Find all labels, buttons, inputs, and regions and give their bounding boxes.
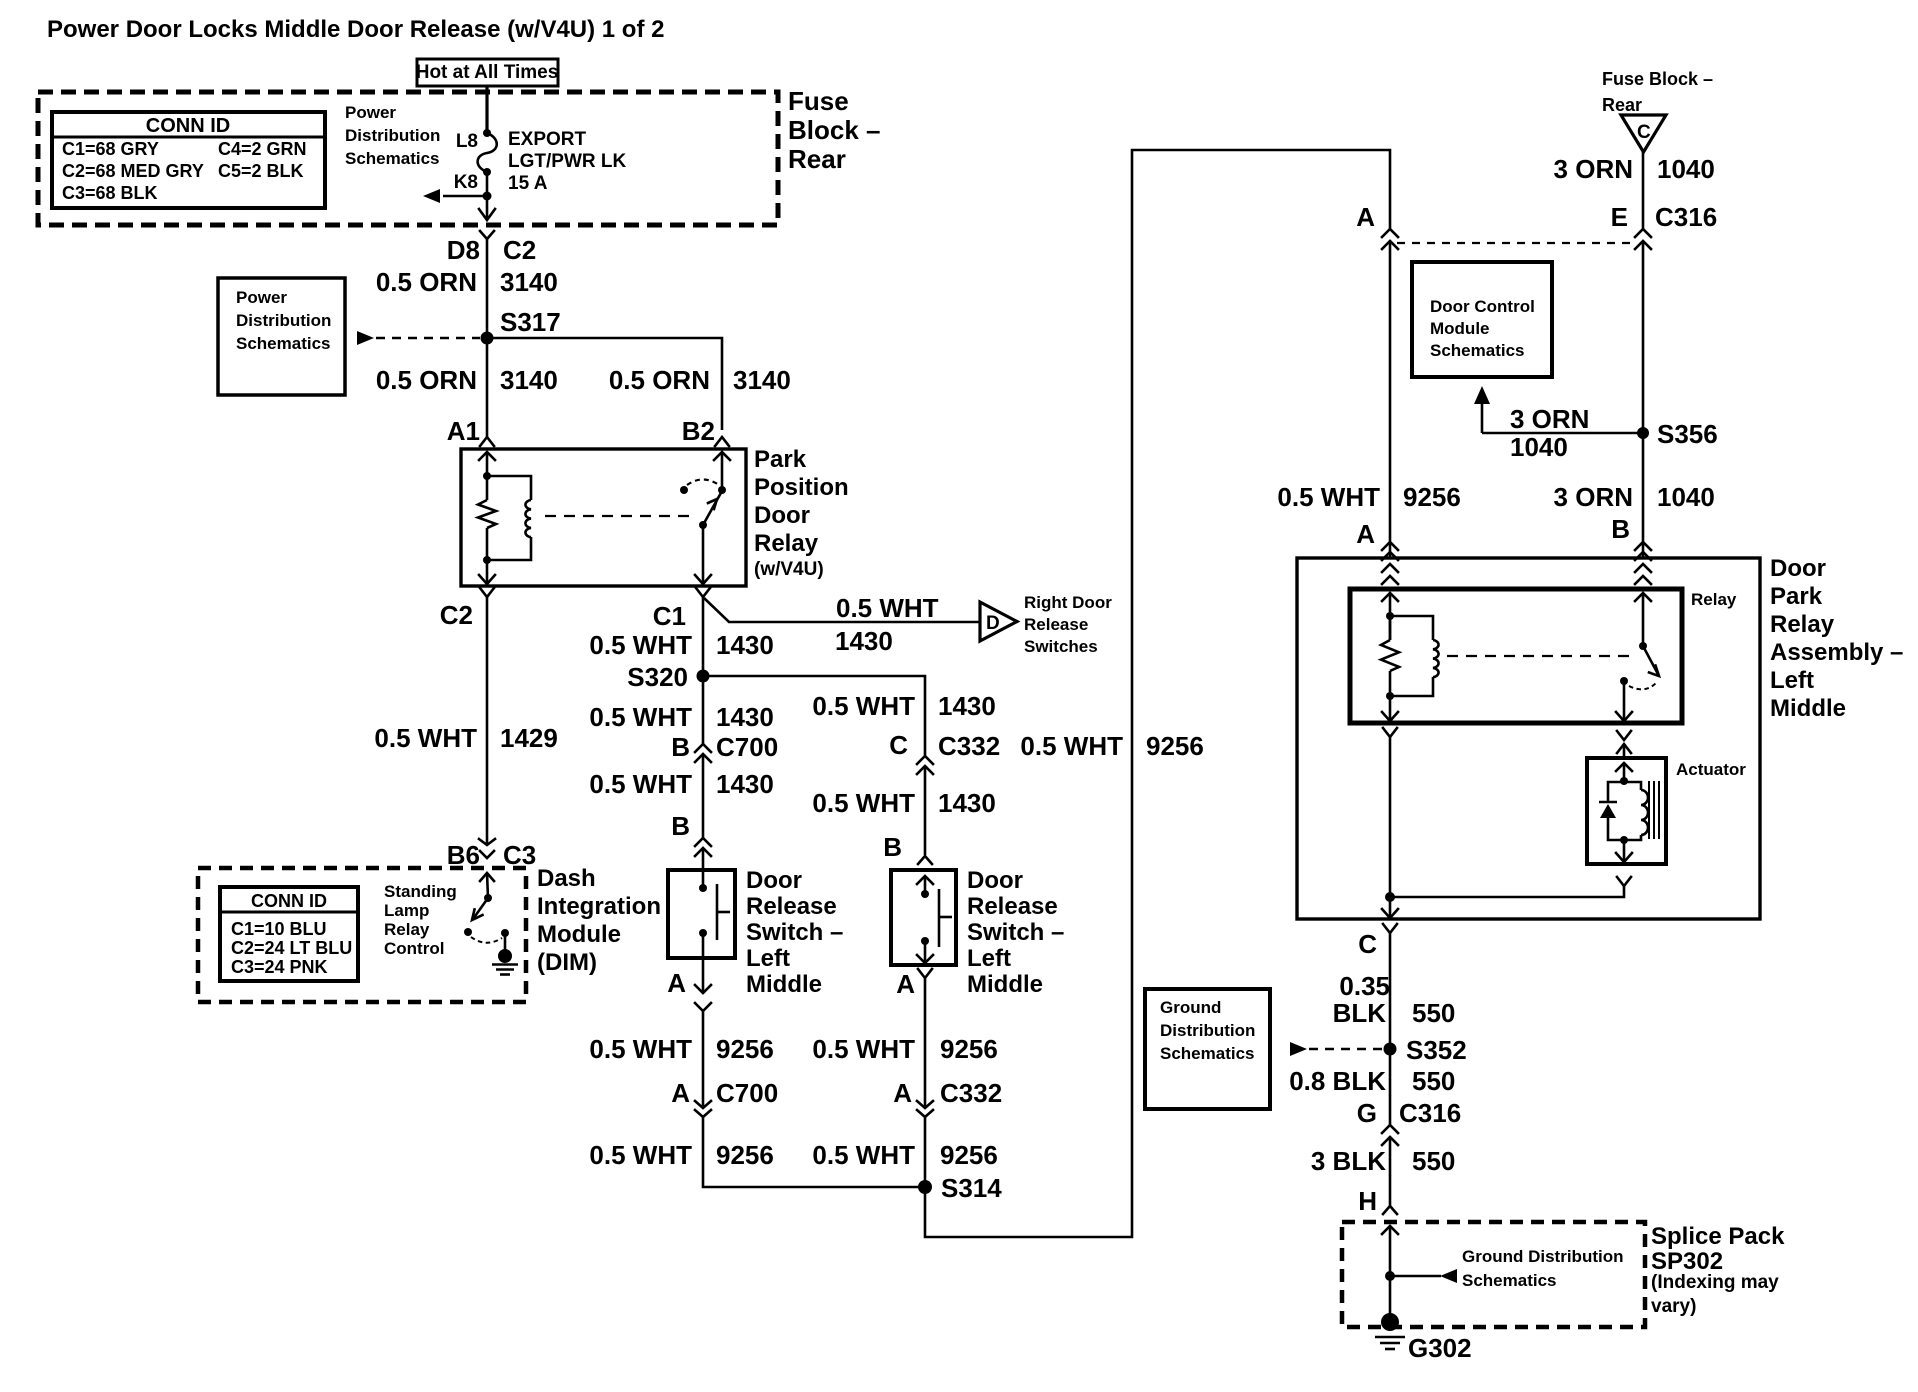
pin C of assembly xyxy=(1358,924,1397,959)
wire A into relay xyxy=(1382,564,1398,640)
svg-text:SP302: SP302 xyxy=(1651,1248,1723,1275)
svg-text:0.8 BLK: 0.8 BLK xyxy=(1289,1066,1386,1096)
svg-text:1429: 1429 xyxy=(500,723,558,753)
svg-text:Actuator: Actuator xyxy=(1676,760,1746,779)
wire 9256 right to S314 xyxy=(924,1117,927,1187)
relay coil inductor (parallel) xyxy=(487,476,531,560)
svg-text:0.5 WHT: 0.5 WHT xyxy=(374,723,477,753)
connector A / C332 xyxy=(893,1078,1002,1117)
svg-text:Schematics: Schematics xyxy=(236,334,331,353)
actuator solenoid coil xyxy=(1620,782,1648,844)
fuse block rear dashed box xyxy=(38,92,778,225)
SECTION: door release switches xyxy=(667,867,1064,1106)
svg-text:S317: S317 xyxy=(500,307,561,337)
wire from hot at all times into fuse xyxy=(485,85,488,133)
svg-text:(w/V4U): (w/V4U) xyxy=(754,559,824,580)
connector pins D8 / C2 at fuse block exit xyxy=(447,231,537,265)
relay coil output arrow to C2 xyxy=(479,560,495,584)
pin B left switch xyxy=(671,811,711,869)
splice S317 xyxy=(481,307,561,345)
connector B / C700 xyxy=(671,732,778,762)
relay K2 box xyxy=(1350,589,1682,723)
splice S320 xyxy=(627,662,709,692)
svg-text:C3: C3 xyxy=(503,840,536,870)
svg-text:EXPORT: EXPORT xyxy=(508,129,587,150)
connector G / C316 xyxy=(1357,1098,1461,1145)
svg-text:3 BLK: 3 BLK xyxy=(1311,1146,1386,1176)
svg-text:1430: 1430 xyxy=(716,630,774,660)
svg-text:(DIM): (DIM) xyxy=(537,949,597,976)
svg-text:1430: 1430 xyxy=(938,788,996,818)
left switch button bar xyxy=(717,884,730,940)
svg-text:0.5 WHT: 0.5 WHT xyxy=(836,593,939,623)
svg-text:(Indexing may: (Indexing may xyxy=(1651,1272,1779,1293)
svg-text:Park: Park xyxy=(754,446,807,473)
switch S2 Door Release Switch Left Middle (right) box xyxy=(891,870,956,965)
wire S320 down xyxy=(702,676,705,744)
SECTION: title xyxy=(47,16,664,43)
svg-text:9256: 9256 xyxy=(1403,482,1461,512)
svg-text:Right Door: Right Door xyxy=(1024,593,1112,612)
svg-text:Power: Power xyxy=(345,103,396,122)
svg-text:Left: Left xyxy=(1770,667,1814,694)
svg-text:Release: Release xyxy=(967,893,1058,920)
svg-text:0.5 WHT: 0.5 WHT xyxy=(589,1034,692,1064)
svg-text:9256: 9256 xyxy=(1146,731,1204,761)
in-assembly connector to actuator xyxy=(1617,731,1631,758)
left switch contacts xyxy=(699,870,707,958)
SECTION: DIM xyxy=(198,597,661,1002)
connector table CONN ID (DIM) xyxy=(220,887,358,981)
wire labels 3 ORN 1040 above B xyxy=(1554,482,1715,512)
splice S352 xyxy=(1384,1035,1467,1065)
svg-text:A: A xyxy=(1356,519,1375,549)
relay switch output arrow to C1 xyxy=(695,525,711,584)
svg-text:Fuse Block –: Fuse Block – xyxy=(1602,69,1713,89)
svg-text:CONN ID: CONN ID xyxy=(146,115,230,137)
power distribution schematics note (fuse block) xyxy=(345,103,440,168)
svg-text:Block –: Block – xyxy=(788,115,881,145)
relay label xyxy=(1691,590,1737,609)
right switch contacts xyxy=(917,876,933,963)
wire label 0.5 WHT 1430 xyxy=(589,630,773,660)
splice S356 xyxy=(1637,419,1718,449)
svg-text:Fuse: Fuse xyxy=(788,86,849,116)
wire 550 S352 to G C316 xyxy=(1389,1049,1392,1125)
svg-text:C1: C1 xyxy=(653,601,686,631)
svg-text:B: B xyxy=(671,732,690,762)
SECTION: fuse block top left xyxy=(38,59,881,265)
branch to door control module xyxy=(1474,386,1643,462)
wire E down to S356 xyxy=(1642,241,1645,558)
relay switch blade xyxy=(699,491,722,529)
door control module schematics box xyxy=(1412,262,1552,377)
svg-text:Relay: Relay xyxy=(1691,590,1737,609)
svg-text:K8: K8 xyxy=(454,172,478,193)
connector A (into assembly harness) xyxy=(1356,202,1398,249)
wire relay output to C pin xyxy=(1382,728,1398,918)
wire 1429 from C2 to DIM xyxy=(486,597,489,845)
pin A1 xyxy=(447,416,494,446)
svg-text:0.5 ORN: 0.5 ORN xyxy=(376,365,477,395)
svg-text:0.5 WHT: 0.5 WHT xyxy=(812,788,915,818)
svg-text:D: D xyxy=(986,613,1000,634)
svg-text:Standing: Standing xyxy=(384,882,457,901)
svg-text:1040: 1040 xyxy=(1657,154,1715,184)
wire fuse output with tap xyxy=(423,172,495,220)
wire label 0.8 BLK 550 xyxy=(1289,1066,1455,1096)
wire label 0.5 WHT 9256 above A xyxy=(1277,482,1460,512)
off-page connector D xyxy=(980,602,1017,641)
relay K2 switch blade xyxy=(1643,646,1659,676)
svg-text:Distribution: Distribution xyxy=(1160,1021,1255,1040)
wire 1430 to left switch B xyxy=(702,754,705,838)
SECTION: S320 and right door triangle xyxy=(589,593,1112,869)
svg-text:A1: A1 xyxy=(447,416,480,446)
svg-text:A: A xyxy=(671,1078,690,1108)
svg-text:Switch –: Switch – xyxy=(746,919,843,946)
svg-text:Door: Door xyxy=(746,867,802,894)
relay switch common from B2 xyxy=(714,452,730,494)
wire labels 0.5 WHT 9256 xyxy=(589,1034,997,1064)
wire labels 0.5 WHT 1430 below S320 xyxy=(589,691,995,732)
wire 1430 from C1 to S320 xyxy=(702,597,705,676)
svg-text:0.5 WHT: 0.5 WHT xyxy=(589,769,692,799)
svg-text:Switch –: Switch – xyxy=(967,919,1064,946)
wire label 0.5 ORN 3140 xyxy=(376,267,558,297)
svg-text:Door Control: Door Control xyxy=(1430,297,1535,316)
wire actuator to C pin xyxy=(1390,877,1631,897)
wire 1430 to right switch B xyxy=(924,766,927,855)
relay K2 mechanical link dashed xyxy=(1447,655,1630,657)
SECTION: park position door relay xyxy=(440,446,849,631)
svg-text:C2: C2 xyxy=(503,235,536,265)
svg-text:C2=68 MED GRY: C2=68 MED GRY xyxy=(62,161,204,181)
svg-text:Control: Control xyxy=(384,939,444,958)
svg-text:0.35: 0.35 xyxy=(1339,971,1390,1001)
svg-text:C: C xyxy=(889,730,908,760)
svg-text:A: A xyxy=(667,968,686,998)
svg-text:Module: Module xyxy=(1430,319,1490,338)
svg-text:B6: B6 xyxy=(447,840,480,870)
svg-text:Door: Door xyxy=(967,867,1023,894)
svg-text:550: 550 xyxy=(1412,998,1455,1028)
DIM switch contact and travel arc xyxy=(464,928,509,943)
svg-text:Position: Position xyxy=(754,474,849,501)
svg-text:C: C xyxy=(1637,122,1651,143)
right switch pin A xyxy=(896,969,932,1106)
svg-text:Middle: Middle xyxy=(746,971,822,998)
svg-text:C1=68 GRY: C1=68 GRY xyxy=(62,139,159,159)
svg-text:3 ORN: 3 ORN xyxy=(1554,482,1633,512)
svg-text:vary): vary) xyxy=(1651,1296,1696,1317)
svg-text:0.5 ORN: 0.5 ORN xyxy=(376,267,477,297)
pin A of assembly xyxy=(1356,519,1398,560)
svg-text:C4=2 GRN: C4=2 GRN xyxy=(218,139,307,159)
splice pack label xyxy=(1651,1223,1785,1317)
svg-text:D8: D8 xyxy=(447,235,480,265)
SECTION: ground chain xyxy=(1145,933,1785,1363)
pin B2 xyxy=(682,416,729,446)
relay switch NO contact xyxy=(680,486,688,494)
relay K2 coil inductor xyxy=(1390,616,1439,696)
svg-text:G: G xyxy=(1357,1098,1377,1128)
svg-text:Splice Pack: Splice Pack xyxy=(1651,1223,1785,1250)
svg-text:CONN ID: CONN ID xyxy=(251,891,327,911)
svg-text:Park: Park xyxy=(1770,583,1823,610)
svg-text:Integration: Integration xyxy=(537,893,661,920)
door release switch left label xyxy=(746,867,843,998)
off-page connector C (fuse block rear) xyxy=(1621,115,1666,152)
relay switch travel dashed arc xyxy=(687,480,719,486)
svg-text:B: B xyxy=(671,811,690,841)
svg-text:9256: 9256 xyxy=(716,1034,774,1064)
dash integration module label xyxy=(537,865,661,976)
relay mechanical link dashed xyxy=(545,515,697,517)
svg-text:Power: Power xyxy=(236,288,287,307)
svg-text:C3=68 BLK: C3=68 BLK xyxy=(62,183,158,203)
svg-text:Dash: Dash xyxy=(537,865,596,892)
SECTION: S317 area xyxy=(218,239,791,446)
splice pack input arrow xyxy=(1382,1226,1398,1276)
actuator diode branch xyxy=(1599,782,1624,840)
svg-text:Module: Module xyxy=(537,921,621,948)
wire 1040 from C down xyxy=(1642,152,1645,229)
splice pack SP302 dashed box xyxy=(1342,1222,1645,1327)
svg-text:Lamp: Lamp xyxy=(384,901,429,920)
door park relay assembly box xyxy=(1297,558,1760,919)
svg-text:Middle: Middle xyxy=(967,971,1043,998)
svg-text:C5=2 BLK: C5=2 BLK xyxy=(218,161,304,181)
svg-text:B: B xyxy=(883,832,902,862)
svg-text:S320: S320 xyxy=(627,662,688,692)
pin H xyxy=(1358,1186,1397,1216)
svg-text:BLK: BLK xyxy=(1333,998,1387,1028)
svg-text:Schematics: Schematics xyxy=(345,149,440,168)
connector A / C700 xyxy=(671,1078,778,1117)
fuse block rear label (right) xyxy=(1602,69,1713,115)
SECTION: top right fuse block rear xyxy=(1277,69,1717,560)
wire labels 0.5 WHT 9256 lower xyxy=(589,1140,997,1170)
wire 9256 to S314 corner xyxy=(703,1117,918,1187)
svg-text:1430: 1430 xyxy=(835,626,893,656)
svg-text:0.5 WHT: 0.5 WHT xyxy=(812,1140,915,1170)
dashed reference line to S352 xyxy=(1290,1042,1383,1056)
svg-text:S314: S314 xyxy=(941,1173,1002,1203)
svg-text:1430: 1430 xyxy=(938,691,996,721)
fuse F (EXPORT LGT/PWR LK 15 A) xyxy=(454,129,627,194)
svg-text:C1=10 BLU: C1=10 BLU xyxy=(231,919,327,939)
svg-text:3140: 3140 xyxy=(733,365,791,395)
svg-text:Switches: Switches xyxy=(1024,637,1098,656)
svg-text:0.5 WHT: 0.5 WHT xyxy=(812,691,915,721)
svg-text:9256: 9256 xyxy=(716,1140,774,1170)
relay K2 coil resistor xyxy=(1381,612,1399,700)
wire 550 to splice pack xyxy=(1389,1137,1392,1206)
svg-text:3140: 3140 xyxy=(500,267,558,297)
ground G302 xyxy=(1375,1276,1472,1363)
relay coil resistor xyxy=(478,472,496,564)
dashed connector tie line A to E xyxy=(1397,242,1636,244)
wire S317 down to A1 xyxy=(486,338,489,430)
svg-text:C700: C700 xyxy=(716,1078,778,1108)
svg-text:3140: 3140 xyxy=(500,365,558,395)
ground inside DIM xyxy=(492,933,518,975)
svg-text:C316: C316 xyxy=(1655,202,1717,232)
svg-text:Distribution: Distribution xyxy=(345,126,440,145)
svg-text:0.5 WHT: 0.5 WHT xyxy=(589,1140,692,1170)
connector B6 / C3 xyxy=(447,839,537,870)
wire label 3 ORN 1040 xyxy=(1554,154,1715,184)
svg-text:C332: C332 xyxy=(940,1078,1002,1108)
svg-text:Left: Left xyxy=(746,945,790,972)
connector table CONN ID (fuse block) xyxy=(52,112,325,208)
actuator mechanical link lines xyxy=(1649,781,1659,839)
svg-text:A: A xyxy=(896,969,915,999)
svg-text:S352: S352 xyxy=(1406,1035,1467,1065)
wire labels 0.5 ORN 3140 (both branches) xyxy=(376,365,791,395)
wire labels 0.5 WHT 1430 xyxy=(589,769,995,818)
hot at all times label box xyxy=(416,59,559,86)
svg-text:C2=24 LT BLU: C2=24 LT BLU xyxy=(231,938,352,958)
dash integration module dashed box xyxy=(198,868,526,1002)
svg-text:550: 550 xyxy=(1412,1146,1455,1176)
svg-text:H: H xyxy=(1358,1186,1377,1216)
svg-text:0.5 WHT: 0.5 WHT xyxy=(589,630,692,660)
svg-text:Power Door Locks Middle Door R: Power Door Locks Middle Door Release (w/… xyxy=(47,16,664,43)
connector E / C316 xyxy=(1611,202,1718,249)
DIM switch blade xyxy=(472,898,488,920)
svg-text:0.5 WHT: 0.5 WHT xyxy=(1277,482,1380,512)
wire A down to assembly xyxy=(1389,241,1392,558)
wire label 3 BLK 550 xyxy=(1311,1146,1456,1176)
svg-text:C332: C332 xyxy=(938,731,1000,761)
svg-text:Schematics: Schematics xyxy=(1160,1044,1255,1063)
DIM switch input arrow xyxy=(480,873,494,902)
relay coil input arrow (pin A1 inside) xyxy=(479,452,495,476)
connector C / C332 xyxy=(889,730,1000,774)
actuator input arrow xyxy=(1616,763,1632,785)
wire label 0.5 WHT 1429 xyxy=(374,723,557,753)
actuator label xyxy=(1676,760,1746,779)
wire 3140 from C2 to S317 xyxy=(486,239,489,338)
svg-text:C700: C700 xyxy=(716,732,778,762)
actuator box xyxy=(1587,758,1666,864)
svg-text:Release: Release xyxy=(1024,615,1088,634)
svg-text:Ground: Ground xyxy=(1160,998,1221,1017)
door park relay assembly label xyxy=(1770,555,1903,722)
svg-text:Left: Left xyxy=(967,945,1011,972)
switch S1 Door Release Switch Left Middle (left) box xyxy=(668,870,735,958)
wire label 0.5 WHT 1430 (to D) xyxy=(835,593,939,656)
ground distribution schematics reference (splice pack) xyxy=(1385,1247,1623,1290)
svg-text:Relay: Relay xyxy=(1770,611,1835,638)
standing lamp relay control note xyxy=(384,882,457,958)
svg-text:Ground Distribution: Ground Distribution xyxy=(1462,1247,1623,1266)
SECTION: door park relay assembly xyxy=(1297,555,1903,959)
wire label 0.35 BLK 550 xyxy=(1333,971,1456,1028)
wire S320 branch to C332 xyxy=(703,676,925,756)
svg-text:Rear: Rear xyxy=(788,144,846,174)
svg-text:1040: 1040 xyxy=(1510,432,1568,462)
actuator output arrow xyxy=(1616,840,1632,862)
svg-text:Relay: Relay xyxy=(754,530,819,557)
svg-text:0.5 ORN: 0.5 ORN xyxy=(609,365,710,395)
svg-text:Assembly –: Assembly – xyxy=(1770,639,1903,666)
pin C2 xyxy=(440,588,494,630)
svg-text:C316: C316 xyxy=(1399,1098,1461,1128)
svg-text:B2: B2 xyxy=(682,416,715,446)
ground distribution schematics box (S352) xyxy=(1145,989,1270,1109)
svg-text:3 ORN: 3 ORN xyxy=(1554,154,1633,184)
svg-text:Schematics: Schematics xyxy=(1430,341,1525,360)
svg-text:C2: C2 xyxy=(440,600,473,630)
svg-text:S356: S356 xyxy=(1657,419,1718,449)
wire B into relay xyxy=(1635,564,1651,650)
svg-text:1430: 1430 xyxy=(716,769,774,799)
park position door relay label xyxy=(754,446,849,580)
svg-text:L8: L8 xyxy=(456,131,478,152)
svg-text:Distribution: Distribution xyxy=(236,311,331,330)
svg-text:Relay: Relay xyxy=(384,920,430,939)
dashed reference line to S317 xyxy=(357,331,480,345)
svg-text:Schematics: Schematics xyxy=(1462,1271,1557,1290)
wire S317 branch to B2 xyxy=(487,338,722,430)
svg-text:Door: Door xyxy=(1770,555,1826,582)
fuse block rear label xyxy=(788,86,881,174)
svg-text:Middle: Middle xyxy=(1770,695,1846,722)
pin B right switch xyxy=(883,832,932,864)
svg-text:A: A xyxy=(893,1078,912,1108)
SECTION: net 9256 routing xyxy=(589,150,1390,1237)
svg-text:Rear: Rear xyxy=(1602,95,1642,115)
pin C1 xyxy=(653,588,710,631)
relay K2 coil output arrow xyxy=(1382,696,1398,721)
svg-text:9256: 9256 xyxy=(940,1034,998,1064)
wire 9256 long run to door park relay assembly xyxy=(925,150,1390,1237)
svg-text:1040: 1040 xyxy=(1657,482,1715,512)
wire 550 from C to S352 xyxy=(1389,933,1392,1049)
svg-text:3 ORN: 3 ORN xyxy=(1510,404,1589,434)
relay K2 switch output arrow xyxy=(1616,681,1632,721)
svg-text:0.5 WHT: 0.5 WHT xyxy=(812,1034,915,1064)
svg-text:0.5 WHT: 0.5 WHT xyxy=(589,702,692,732)
door release switch right label xyxy=(967,867,1064,998)
svg-text:9256: 9256 xyxy=(940,1140,998,1170)
splice S314 xyxy=(918,1173,1002,1203)
svg-text:Hot at All Times: Hot at All Times xyxy=(416,62,559,83)
svg-text:0.5 WHT: 0.5 WHT xyxy=(1020,731,1123,761)
relay K2 switch contact and travel arc xyxy=(1620,677,1656,689)
svg-text:1430: 1430 xyxy=(716,702,774,732)
pin B of assembly xyxy=(1611,514,1651,560)
power distribution schematics box xyxy=(218,278,345,395)
left switch pin A xyxy=(667,958,711,1011)
right switch button bar xyxy=(939,889,952,947)
svg-text:C: C xyxy=(1358,929,1377,959)
svg-text:G302: G302 xyxy=(1408,1333,1472,1363)
wire label 0.5 WHT 9256 (riser) xyxy=(1020,731,1203,761)
svg-text:LGT/PWR LK: LGT/PWR LK xyxy=(508,151,626,172)
right door release switches note xyxy=(1024,593,1112,656)
svg-text:Release: Release xyxy=(746,893,837,920)
wire 1430 from C1 to right door release switches xyxy=(704,598,979,622)
svg-text:B: B xyxy=(1611,514,1630,544)
svg-text:C3=24 PNK: C3=24 PNK xyxy=(231,957,328,977)
relay K1 Park Position Door Relay box xyxy=(461,449,746,586)
svg-text:A: A xyxy=(1356,202,1375,232)
svg-text:550: 550 xyxy=(1412,1066,1455,1096)
